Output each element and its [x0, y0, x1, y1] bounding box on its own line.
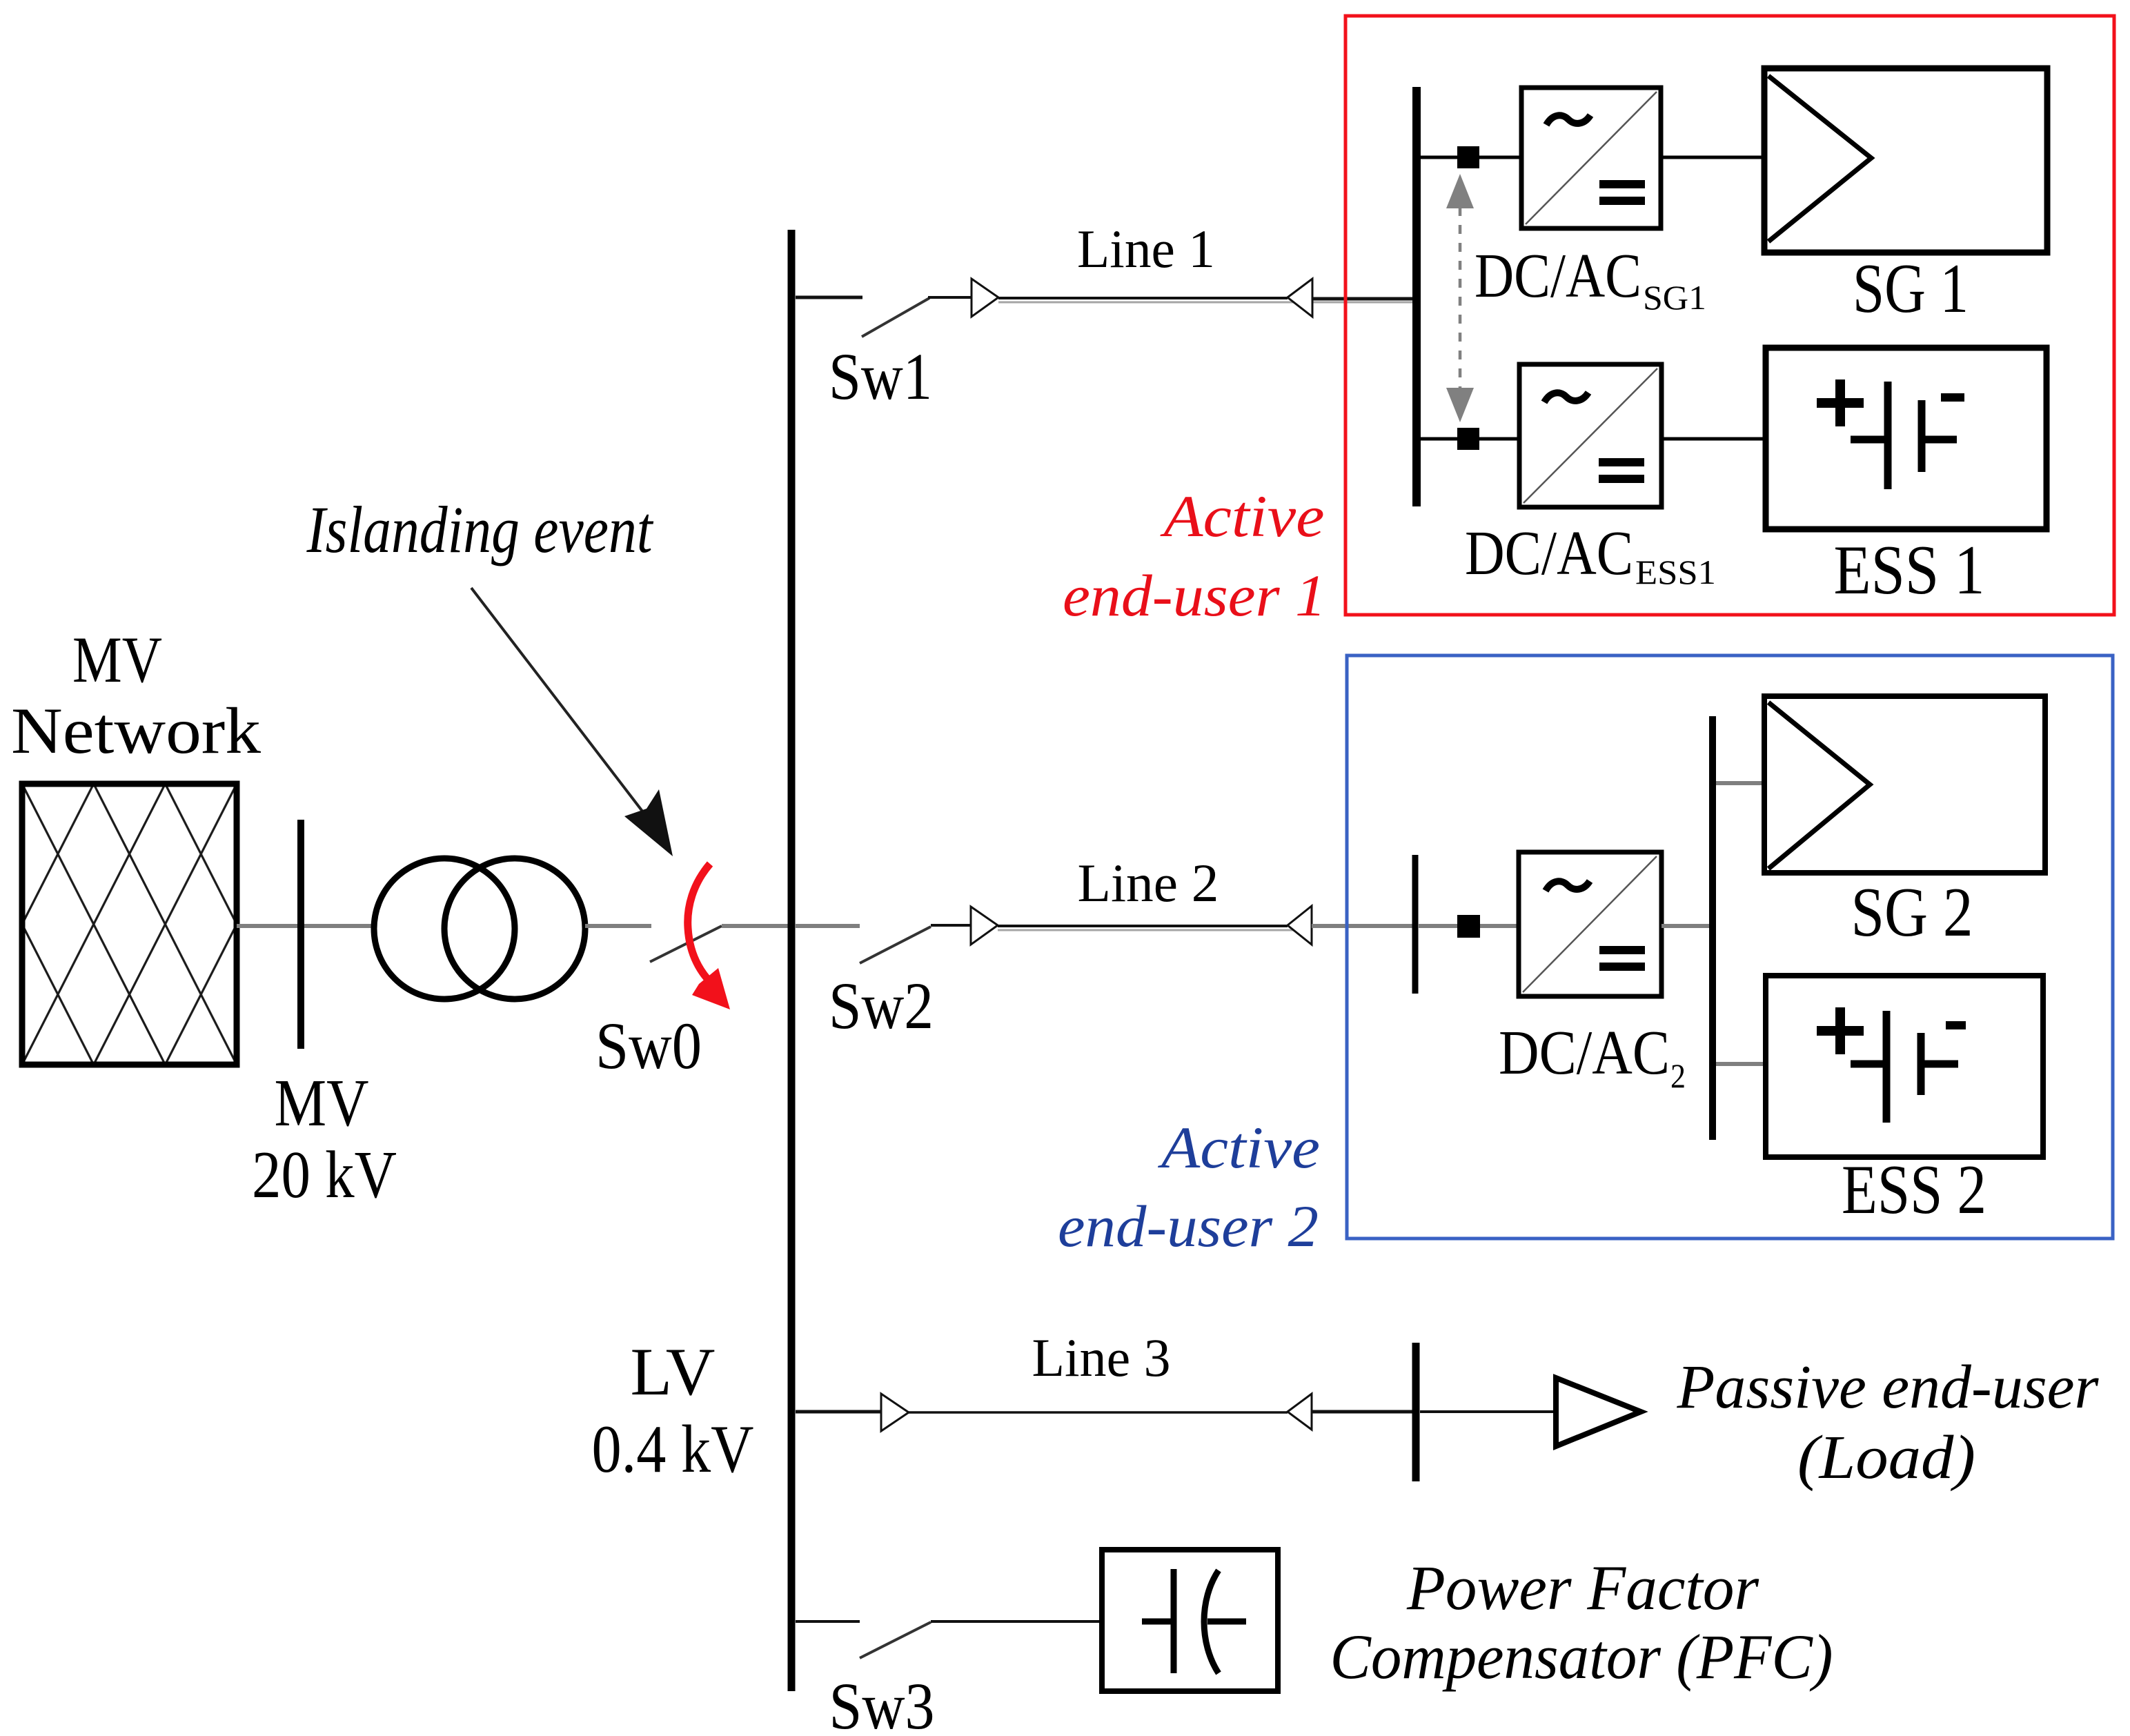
svg-text:Sw2: Sw2 [829, 969, 934, 1043]
capacitor symbol [1142, 1569, 1246, 1673]
wire bus2 to SG2 [1716, 781, 1764, 785]
wire DC/AC2 to bus2 [1661, 924, 1710, 928]
end-user 2 busbar 2 [1709, 716, 1716, 1140]
svg-text:Compensator (PFC): Compensator (PFC) [1330, 1621, 1833, 1692]
svg-text:end-user 1: end-user 1 [1063, 562, 1326, 629]
wire bus2 to ESS2 [1716, 1062, 1766, 1066]
svg-text:ESS 2: ESS 2 [1842, 1151, 1986, 1229]
svg-text:Sw1: Sw1 [829, 339, 932, 413]
switch Sw3 blade [860, 1622, 931, 1658]
converter DC/AC ESS1 box [1519, 364, 1661, 507]
junction node square ESS1 [1457, 428, 1479, 450]
red boundary box active end-user 1 [1345, 16, 2114, 615]
passive load arrow symbol [1556, 1378, 1641, 1446]
svg-text:end-user 2: end-user 2 [1058, 1193, 1319, 1259]
svg-text:DC/AC: DC/AC [1475, 241, 1641, 310]
converter DC/AC 2 box [1519, 852, 1661, 996]
battery ESS 2 box [1766, 976, 2043, 1157]
line1 sending-end arrow [972, 279, 998, 317]
wire MV box to transformer [237, 924, 377, 928]
wire bus to Sw3 [796, 1620, 860, 1623]
svg-text:Active: Active [1160, 483, 1324, 549]
Line 2 conductor [998, 925, 1288, 927]
line2 sending-end arrow [971, 907, 998, 945]
converter DC/AC SG1 box [1521, 88, 1661, 228]
MV busbar [297, 820, 304, 1049]
battery symbol ESS1 [1817, 379, 1964, 489]
svg-text:MV: MV [275, 1066, 369, 1141]
svg-text:2: 2 [1670, 1056, 1686, 1095]
junction node square SG1 [1457, 146, 1479, 168]
line3 sending-end arrow [881, 1394, 909, 1431]
wire Sw1 blade to arrow [928, 296, 972, 299]
svg-text:20 kV: 20 kV [252, 1138, 397, 1212]
svg-text:ESS1: ESS1 [1635, 553, 1716, 591]
red arc arrow islanding break at Sw0 [688, 864, 711, 983]
wire converter to ESS1 [1661, 437, 1766, 441]
svg-text:Line 3: Line 3 [1032, 1328, 1171, 1388]
wire converter to SG1 [1661, 156, 1764, 159]
wire bus to converter ESS1 [1421, 437, 1519, 441]
svg-text:ESS 1: ESS 1 [1834, 531, 1985, 609]
generator SG 2 box [1764, 696, 2045, 873]
wire load busbar to load [1420, 1410, 1556, 1413]
switch Sw2 blade [860, 927, 931, 963]
line2 receiving-end arrow [1288, 906, 1312, 945]
transformer [374, 858, 515, 999]
wire bus to converter SG1 [1421, 156, 1521, 159]
svg-text:Line 1: Line 1 [1077, 219, 1215, 279]
dashed coupling arrow between converters [1446, 174, 1474, 422]
svg-text:Active: Active [1158, 1114, 1320, 1181]
wire line2 to end-user2 bus [1312, 924, 1415, 928]
svg-text:SG 2: SG 2 [1851, 874, 1973, 951]
svg-text:Islanding event: Islanding event [306, 493, 654, 566]
end-user 2 busbar 1 [1412, 855, 1419, 994]
line1 receiving-end arrow [1288, 279, 1312, 317]
svg-text:Passive end-user: Passive end-user [1677, 1353, 2100, 1421]
Line 3 conductor [909, 1411, 1288, 1414]
blue boundary box active end-user 2 [1347, 655, 2113, 1239]
wire bus to line3 arrow [796, 1410, 881, 1414]
svg-text:Sw0: Sw0 [595, 1009, 702, 1083]
Line 1 conductor [998, 297, 1288, 299]
battery symbol ESS2 [1817, 1007, 1966, 1123]
svg-text:SG1: SG1 [1643, 278, 1706, 317]
junction node square 2 [1457, 915, 1480, 938]
svg-text:DC/AC: DC/AC [1465, 518, 1633, 588]
wire Sw0 to LV bus [722, 924, 788, 928]
svg-text:LV: LV [631, 1334, 716, 1410]
wire line1 to end-user1 bus [1312, 297, 1417, 301]
PFC capacitor box [1102, 1550, 1278, 1691]
LV busbar [788, 230, 796, 1691]
svg-text:Sw3: Sw3 [829, 1669, 935, 1736]
wire line3 to load busbar [1312, 1410, 1412, 1414]
svg-text:0.4 kV: 0.4 kV [592, 1412, 754, 1487]
line3 receiving-end arrow [1288, 1394, 1312, 1430]
switch Sw0 blade [650, 926, 722, 962]
MV network equivalent source box [22, 784, 237, 1065]
svg-text:Power Factor: Power Factor [1406, 1552, 1759, 1623]
svg-text:DC/AC: DC/AC [1499, 1018, 1670, 1087]
svg-text:(Load): (Load) [1797, 1423, 1975, 1492]
svg-text:SG 1: SG 1 [1853, 250, 1969, 328]
svg-text:Network: Network [11, 694, 262, 767]
svg-text:Line 2: Line 2 [1078, 853, 1219, 913]
wire transformer to Sw0 [585, 924, 651, 928]
battery ESS 1 box [1766, 348, 2047, 529]
wire bus to Sw1 [796, 296, 862, 299]
switch Sw1 blade [862, 298, 929, 337]
wire Sw2 blade to arrow [931, 924, 971, 927]
wire bus to Sw2 [796, 924, 860, 928]
end-user 1 busbar [1412, 87, 1421, 506]
generator SG 1 box [1764, 68, 2047, 253]
wire Sw3 to PFC [931, 1620, 1102, 1623]
load busbar [1412, 1343, 1420, 1481]
svg-text:MV: MV [72, 623, 162, 696]
wire bus1 to DC/AC2 [1418, 924, 1519, 928]
arrow islanding event to Sw0 [471, 588, 643, 812]
